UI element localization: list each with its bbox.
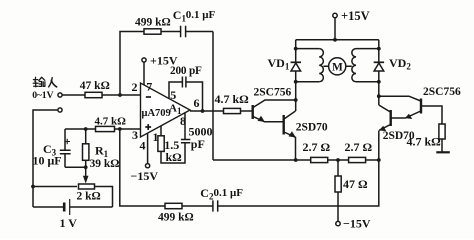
svg-text:C1: C1 (173, 8, 187, 24)
wire C2 branch drop (120, 129, 165, 206)
svg-text:7: 7 (146, 80, 152, 94)
svg-text:C2: C2 (200, 186, 214, 202)
svg-text:47 Ω: 47 Ω (343, 177, 368, 191)
wire to Q1 base (241, 110, 252, 112)
capacitor C1 0.1uF (181, 26, 186, 37)
wire feedback riser (120, 32, 144, 96)
transistor Q4 2SD70 right (390, 110, 392, 126)
svg-text:4.7 kΩ: 4.7 kΩ (95, 116, 127, 128)
diode VD2 (374, 61, 384, 63)
wire lower terminal to left rail (33, 110, 58, 207)
svg-text:4.7 kΩ: 4.7 kΩ (215, 92, 250, 106)
svg-text:1 V: 1 V (60, 216, 78, 230)
wire feedback drop to emitter rail (212, 32, 214, 161)
node input terminal lower (58, 108, 62, 112)
wire left winding bottom (296, 81, 320, 83)
svg-text:2: 2 (132, 80, 138, 94)
resistor 4.7 kOhm base (439, 124, 445, 139)
pin 1 compensation resistor 1.5 kOhm (161, 126, 185, 164)
opamp minus sign (146, 96, 151, 98)
wire 499k to C2 (182, 205, 213, 207)
wire 47 Ohm to -15V (337, 192, 339, 221)
wiper arrow to pot (85, 167, 87, 176)
resistor 499 kOhm top (144, 29, 161, 34)
resistor R1 39 kOhm (85, 129, 87, 167)
op-amp U1 uA709 (141, 83, 191, 137)
capacitor 5000 pF (184, 113, 186, 140)
svg-text:pF: pF (191, 137, 205, 151)
resistor 47 kOhm (85, 92, 102, 97)
svg-text:kΩ: kΩ (166, 150, 183, 164)
wire input to 47k (62, 94, 85, 96)
svg-text:VD2: VD2 (389, 56, 411, 72)
resistor 499 kOhm bottom (165, 203, 182, 208)
ground (436, 151, 450, 153)
svg-text:2SC756: 2SC756 (254, 87, 292, 99)
wire 4.7k to opamp pin3 (115, 128, 141, 130)
svg-text:+15V: +15V (341, 9, 370, 23)
svg-text:499 kΩ: 499 kΩ (158, 212, 194, 224)
svg-text:2SD70: 2SD70 (383, 130, 415, 142)
wire C3 bottom to R1 bottom (65, 166, 86, 168)
svg-text:3: 3 (132, 128, 138, 142)
transistor Q2 2SD70 (283, 115, 285, 135)
wire left winding top (296, 48, 320, 50)
resistor 2.7 Ohm right (349, 157, 366, 162)
svg-text:R1: R1 (95, 143, 109, 159)
wire pot left (33, 186, 77, 188)
potentiometer 2 kOhm (79, 184, 95, 189)
svg-text:2 kΩ: 2 kΩ (77, 191, 101, 203)
wire C2 to right emitter node (218, 131, 379, 207)
node feedback junction (118, 93, 122, 97)
node R1 C3 bottom junction (84, 165, 88, 169)
label 输入 (33, 77, 57, 87)
svg-text:499 kΩ: 499 kΩ (135, 17, 171, 29)
svg-text:2SD70: 2SD70 (296, 122, 328, 134)
capacitor 200 pF (182, 77, 186, 88)
svg-text:1: 1 (153, 130, 159, 144)
wire C3 top to 4.7k (65, 128, 96, 130)
svg-text:−15V: −15V (343, 217, 371, 231)
svg-text:10 μF: 10 μF (33, 153, 62, 167)
wire 200pF to output (186, 82, 203, 111)
inductor left winding (319, 49, 323, 82)
wire emitter rail (213, 159, 311, 161)
wire right winding top (356, 48, 379, 50)
svg-text:−15V: −15V (131, 169, 159, 183)
wire right branch vertical (378, 40, 380, 105)
svg-text:2.7 Ω: 2.7 Ω (345, 140, 373, 154)
svg-text:5: 5 (170, 88, 176, 102)
svg-text:4: 4 (140, 138, 146, 152)
battery 1V (33, 206, 113, 208)
node pot branch (31, 185, 35, 189)
wire top rail (296, 39, 379, 41)
resistor 2.7 Ohm left (311, 157, 328, 162)
pin 5 compensation (169, 82, 182, 98)
svg-text:0.1 μF: 0.1 μF (214, 187, 244, 199)
node R1 top junction (84, 127, 88, 131)
svg-text:6: 6 (194, 96, 200, 110)
resistor 47 Ohm (337, 160, 339, 176)
svg-text:0.1 μF: 0.1 μF (186, 9, 216, 21)
wire 47k to opamp pin2 (102, 94, 141, 96)
svg-text:VD1: VD1 (268, 56, 290, 72)
svg-text:0~1V: 0~1V (32, 90, 53, 101)
opamp plus sign (145, 124, 151, 130)
inductor right winding (352, 49, 356, 82)
transistor Q3 2SC756 right (420, 99, 422, 114)
node 200pF output junction (201, 109, 205, 113)
svg-text:2.7 Ω: 2.7 Ω (303, 140, 331, 154)
pin 7 +15V supply (142, 58, 146, 62)
wire C1 to right feedback drop (186, 31, 213, 33)
node input terminal upper (58, 93, 62, 97)
svg-text:M: M (332, 62, 343, 74)
resistor 4.7 kOhm input (96, 126, 115, 131)
motor M (323, 65, 351, 67)
capacitor C2 0.1uF (213, 200, 218, 211)
wire right winding bottom (356, 81, 379, 83)
svg-text:μA709: μA709 (142, 108, 171, 119)
svg-text:47 kΩ: 47 kΩ (80, 80, 110, 92)
wire opamp output (190, 110, 224, 112)
wire to ground (441, 139, 443, 152)
resistor 4.7 kOhm drive (224, 108, 241, 113)
wire left branch vertical (295, 40, 297, 111)
transistor Q1 2SC756 (251, 105, 253, 119)
capacitor C3 10uF (64, 129, 66, 167)
wire 499k to C1 (161, 31, 181, 33)
node +15V motor supply (333, 13, 337, 17)
svg-text:2SC756: 2SC756 (423, 86, 461, 98)
wire pot right (94, 187, 113, 208)
svg-text:200 pF: 200 pF (170, 65, 202, 77)
wire Q3 base to 4.7k (422, 106, 442, 124)
wire +15V drop (334, 18, 336, 40)
wire between 2.7 ohms (328, 159, 349, 161)
diode VD1 (291, 61, 301, 63)
svg-text:39 kΩ: 39 kΩ (90, 158, 120, 170)
node -15V terminal (336, 221, 340, 225)
pin 4 -15V supply (147, 133, 149, 164)
wire to right emitter node (366, 159, 379, 161)
node C2 branch junction (118, 127, 122, 131)
